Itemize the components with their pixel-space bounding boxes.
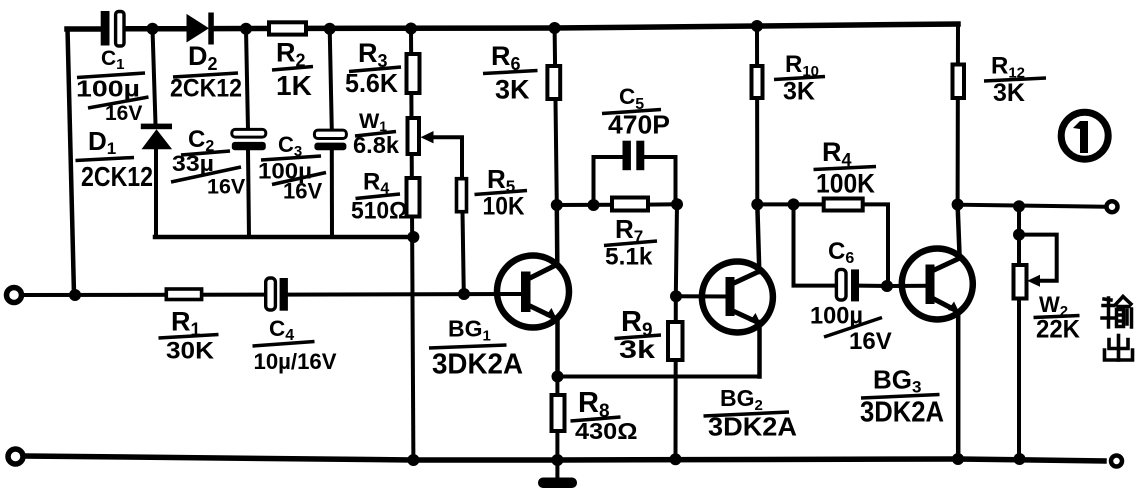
- transistor BG3: [902, 249, 973, 320]
- label C5: [602, 84, 670, 140]
- resistor R1 30K body: [166, 289, 201, 300]
- wire BG2 base column and R9 to ground: [676, 204, 678, 459]
- transistor BG2: [702, 262, 773, 333]
- resistor R10 3K body: [752, 66, 763, 98]
- wire W2 wiper loop: [1019, 235, 1057, 281]
- junction dot BG3 base C6: [881, 280, 893, 292]
- label BG3: [860, 365, 944, 429]
- capacitor C1 left plate: [101, 11, 110, 46]
- svg-text:100K: 100K: [816, 169, 875, 199]
- wire BG2 collector lead: [757, 204, 759, 272]
- label C4: [253, 316, 337, 374]
- junction dot bottom rail BG3: [952, 453, 964, 465]
- potentiometer W1 wiper arrow: [421, 131, 434, 143]
- label R8: [571, 387, 638, 444]
- terminal input bottom: [8, 449, 23, 464]
- svg-text:470P: 470P: [608, 110, 670, 140]
- diode D1 triangle: [142, 129, 173, 149]
- junction dot R4 C6 left node: [788, 198, 800, 210]
- capacitor C6 left plate: [836, 269, 846, 300]
- wire C5 loop right: [644, 157, 675, 204]
- diode D2 cathode bar: [208, 13, 214, 45]
- wire R5 bottom to base node: [463, 212, 464, 295]
- svg-text:22K: 22K: [1036, 316, 1080, 344]
- wire C2 column upper: [246, 29, 248, 130]
- label BG1: [429, 316, 523, 381]
- label R4 510: [351, 169, 408, 225]
- potentiometer W1 6.8K body: [408, 118, 420, 154]
- wire W1 wiper to R5: [430, 137, 462, 180]
- diode D1 cathode bar: [141, 124, 172, 130]
- label C2: [171, 126, 246, 199]
- svg-text:16V: 16V: [283, 179, 322, 204]
- svg-text:10µ/16V: 10µ/16V: [254, 349, 337, 374]
- svg-text:2CK12: 2CK12: [170, 75, 242, 103]
- wire C3 column lower: [330, 150, 334, 237]
- wire R8 column: [555, 377, 559, 460]
- junction dot bottom rail R9: [670, 453, 682, 465]
- label C3: [258, 132, 326, 204]
- capacitor C4 left plate: [266, 278, 276, 310]
- resistor R3 5.6K body: [407, 54, 420, 93]
- junction dot top rail C3: [324, 23, 336, 35]
- terminal input top: [7, 288, 22, 303]
- ground: [538, 478, 577, 489]
- label R12: [984, 53, 1046, 108]
- resistor R4 510ohm body: [407, 178, 420, 217]
- wire ground stub: [555, 460, 559, 478]
- junction dot top rail R6: [549, 22, 561, 34]
- wire C5 loop left: [594, 157, 623, 205]
- svg-text:10K: 10K: [483, 193, 525, 221]
- junction dot bottom rail W2: [1014, 453, 1026, 465]
- svg-text:3K: 3K: [993, 79, 1025, 107]
- label C1: [76, 47, 149, 125]
- wire sub rail: [155, 235, 413, 240]
- wire output line: [958, 205, 1105, 207]
- label R3: [345, 38, 401, 98]
- wire D1 column lower: [154, 149, 158, 237]
- capacitor C2 bottom plate: [232, 142, 266, 150]
- node 1 circled marker: [1061, 112, 1108, 159]
- junction dot input wire left: [69, 289, 81, 301]
- capacitor C4 right plate: [280, 278, 288, 311]
- wire R12 column: [956, 24, 960, 205]
- junction dot top rail D1: [147, 23, 159, 35]
- wire BG3 collector lead: [958, 205, 960, 258]
- svg-text:33µ: 33µ: [172, 151, 214, 176]
- svg-text:16V: 16V: [849, 328, 892, 355]
- resistor R4 100K body: [824, 199, 863, 211]
- label R9: [615, 306, 662, 364]
- label W1: [353, 109, 399, 158]
- svg-text:5.6K: 5.6K: [345, 68, 398, 98]
- capacitor C1 right plate: [116, 12, 124, 47]
- label BG2: [704, 385, 798, 442]
- label D1: [76, 126, 154, 192]
- text shu output character: [1102, 297, 1132, 328]
- wire BG2 emitter lead: [757, 322, 762, 377]
- label R7: [604, 214, 657, 271]
- wire BG1 emitter lead: [555, 318, 560, 377]
- resistor R6 3K body: [547, 66, 560, 99]
- wire top rail C1 to D2: [124, 26, 187, 32]
- svg-text:430Ω: 430Ω: [575, 418, 638, 444]
- junction dot C5 loop left: [588, 199, 600, 211]
- terminal output top: [1107, 201, 1118, 212]
- junction dot bottom rail R4 column: [407, 454, 419, 466]
- wire emitter bus BG1 to BG2: [558, 375, 760, 379]
- wire C3 column upper: [330, 29, 332, 131]
- label R10: [774, 51, 825, 106]
- wire C2 column lower: [248, 150, 249, 237]
- wire top rail D2 to right corner: [214, 24, 959, 29]
- junction dot R5 base node: [458, 288, 470, 300]
- junction dot BG2 base: [670, 290, 682, 302]
- label C6: [810, 238, 892, 355]
- potentiometer W2 22K body: [1014, 265, 1027, 299]
- svg-text:1K: 1K: [276, 70, 312, 101]
- wire R4 right lead down: [863, 204, 888, 286]
- wire input line C4 to BG1 base: [288, 292, 523, 297]
- wire W2 column: [1017, 206, 1021, 459]
- junction dot top rail C2: [240, 23, 252, 35]
- wire R10 column: [755, 26, 759, 204]
- wire BG1 collector lead: [555, 205, 560, 264]
- wire left vertical drop: [68, 29, 75, 295]
- text chu output character: [1105, 336, 1133, 361]
- svg-text:16V: 16V: [105, 102, 142, 125]
- wire bottom rail: [25, 456, 1104, 461]
- wire R3 W1 R4 column: [411, 29, 413, 460]
- junction dot emitter bus: [552, 371, 564, 383]
- wire top rail left segment: [67, 26, 101, 32]
- label R5: [475, 164, 528, 221]
- svg-text:3K: 3K: [495, 75, 530, 105]
- junction dot R7 node right: [671, 198, 683, 210]
- capacitor C3 bottom plate: [314, 143, 346, 151]
- junction dot sub rail R4: [407, 231, 419, 243]
- wire R4 left lead: [794, 202, 824, 206]
- resistor R2 1K body: [269, 22, 306, 34]
- label R4 100K: [814, 137, 877, 199]
- svg-text:30K: 30K: [166, 338, 215, 365]
- label R2: [272, 38, 313, 102]
- junction dot R12 node: [952, 199, 964, 211]
- capacitor C5 right plate: [636, 141, 644, 171]
- junction dot R7 node left: [551, 199, 563, 211]
- svg-text:5.1k: 5.1k: [605, 244, 653, 271]
- wire C6 right lead: [859, 284, 887, 288]
- svg-text:2CK12: 2CK12: [81, 161, 153, 192]
- label R6: [483, 41, 538, 105]
- wire R7 node left: [557, 203, 612, 207]
- svg-text:100µ: 100µ: [76, 76, 140, 102]
- capacitor C6 right plate: [851, 269, 859, 301]
- svg-text:3DK2A: 3DK2A: [860, 397, 944, 429]
- label W2: [1034, 292, 1081, 344]
- svg-text:3k: 3k: [619, 336, 655, 364]
- resistor R8 430ohm body: [552, 395, 565, 431]
- transistor BG1: [497, 256, 569, 328]
- svg-text:510Ω: 510Ω: [351, 198, 408, 225]
- wire C6 left leg: [794, 204, 837, 285]
- label D2: [170, 41, 242, 103]
- resistor R12 3K body: [953, 65, 965, 99]
- resistor R5 10K body: [457, 179, 467, 212]
- label R1: [159, 307, 219, 365]
- junction dot BG2 collector node: [751, 198, 763, 210]
- svg-text:3DK2A: 3DK2A: [432, 349, 523, 381]
- terminal output bottom: [1111, 456, 1122, 467]
- resistor R9 3K body: [668, 322, 683, 360]
- wire input line left of C4: [22, 293, 266, 297]
- wire BG3 base lead: [887, 284, 928, 288]
- junction dot bottom rail R8: [551, 454, 563, 466]
- capacitor C3 top plate: [314, 130, 346, 138]
- wire D1 column upper: [153, 29, 156, 124]
- wire BG3 emitter lead: [956, 313, 961, 459]
- resistor R7 5.1K body: [612, 198, 648, 211]
- capacitor C5 left plate: [623, 141, 631, 171]
- junction dot top rail R3: [405, 23, 417, 35]
- wire node R10 to R4: [757, 202, 793, 206]
- capacitor C2 top plate: [232, 129, 266, 137]
- wire R6 column: [555, 28, 557, 205]
- junction dot top rail R10: [751, 20, 763, 32]
- svg-text:3K: 3K: [783, 78, 815, 106]
- junction dot W2 loop: [1013, 229, 1025, 241]
- svg-text:16V: 16V: [207, 175, 246, 199]
- wire R7 node right: [648, 202, 677, 206]
- potentiometer W2 wiper arrow: [1027, 275, 1040, 287]
- junction dot output W2: [1013, 200, 1025, 212]
- svg-text:3DK2A: 3DK2A: [708, 412, 797, 442]
- svg-text:6.8k: 6.8k: [353, 132, 399, 158]
- wire BG2 base lead: [676, 294, 728, 298]
- diode D2 triangle: [187, 14, 210, 43]
